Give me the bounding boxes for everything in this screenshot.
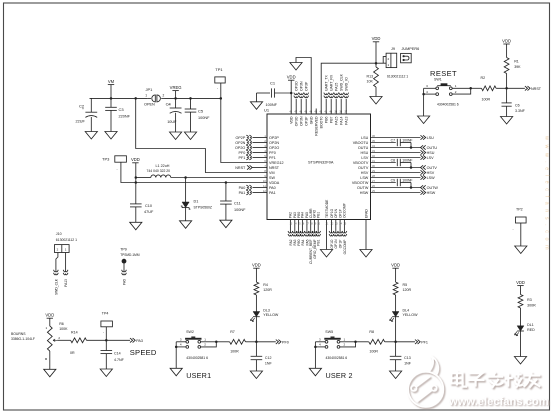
svg-text:C9: C9 [391, 179, 395, 183]
svg-text:C5: C5 [198, 109, 204, 114]
net stub CURRENT_REF below U1 [308, 231, 313, 233]
net label LSV [421, 155, 426, 159]
capacitor C1 100NF [257, 92, 271, 94]
wire SW2 left pins to ground [176, 341, 186, 343]
svg-text:100R: 100R [369, 350, 378, 354]
capacitor C11 100NF [225, 183, 227, 202]
resistor R7 100R [230, 339, 246, 344]
svg-text:VDD: VDD [45, 313, 54, 318]
svg-text:VDD: VDD [290, 116, 294, 124]
svg-text:SW5: SW5 [325, 330, 333, 334]
svg-text:PA2: PA2 [289, 239, 293, 245]
svg-text:PB7: PB7 [330, 116, 334, 123]
ground EPAD [360, 250, 372, 258]
svg-text:HSV: HSV [361, 171, 369, 175]
svg-text:R8: R8 [369, 330, 374, 334]
wire U1 VBOOTV [371, 162, 396, 164]
svg-text:100NF: 100NF [402, 139, 412, 143]
svg-text:LSU: LSU [361, 136, 369, 140]
junction SW2 left [175, 346, 178, 349]
U1 RESERVED pin stub [315, 109, 317, 115]
svg-text:C2: C2 [79, 104, 85, 109]
wire VREG rail [165, 97, 221, 99]
wire U1 HSU [371, 152, 421, 154]
net stub UART_RX above U1 [330, 99, 332, 114]
U1 left pin 3 OP2O [253, 147, 268, 149]
U1 left pin 11 PA0 [253, 187, 268, 189]
svg-text:C12: C12 [265, 356, 272, 360]
svg-text:OUTV: OUTV [427, 166, 438, 170]
net label PA3 [130, 338, 135, 342]
ground SW2 [170, 368, 182, 376]
svg-text:4304002581 6: 4304002581 6 [186, 356, 208, 360]
svg-text:PA5: PA5 [122, 279, 126, 285]
svg-text:RED: RED [527, 328, 535, 332]
svg-text:1: 1 [145, 93, 147, 97]
svg-text:OUTU: OUTU [427, 146, 438, 150]
wire LED node to net label [396, 341, 415, 343]
svg-text:HSU: HSU [427, 151, 435, 155]
ground C2 [85, 132, 97, 140]
svg-text:U1: U1 [264, 108, 270, 113]
svg-text:6130021112 1: 6130021112 1 [387, 75, 408, 79]
resistor R13 10K [374, 67, 379, 87]
capacitor C4 10UF [175, 98, 177, 108]
ground C11 [220, 220, 232, 228]
capacitor C12 1NF [255, 342, 257, 357]
svg-text:C3: C3 [119, 107, 125, 112]
svg-text:-: - [217, 86, 218, 90]
resistor R1 39K [504, 58, 509, 74]
resistor R3 300R [518, 295, 523, 309]
svg-text:0R: 0R [70, 351, 75, 355]
svg-text:TESTMODE: TESTMODE [325, 199, 329, 218]
svg-text:OP2O: OP2O [235, 146, 245, 150]
wire U1 LSW [371, 177, 421, 179]
svg-text:C4: C4 [166, 101, 172, 106]
svg-text:OP3P: OP3P [305, 116, 309, 126]
svg-text:VREG: VREG [170, 85, 182, 90]
net label PF1 [415, 340, 420, 344]
wire J10 pin1 [65, 253, 67, 271]
svg-text:100NF: 100NF [402, 179, 412, 183]
capacitor C3 220NF [110, 98, 112, 107]
svg-text:BOOT0: BOOT0 [320, 116, 324, 128]
net stub PB0 below U1 [296, 231, 301, 233]
svg-text:EPAD: EPAD [364, 209, 368, 218]
svg-text:PB6: PB6 [325, 116, 329, 123]
wire SW5 left pins to ground [315, 341, 325, 343]
svg-text:-: - [513, 227, 514, 231]
svg-text:TPSMD-1MM: TPSMD-1MM [120, 253, 140, 257]
wire TP4 stub [105, 327, 107, 341]
svg-text:6130021112 1: 6130021112 1 [56, 238, 77, 242]
junction SW5 left [314, 346, 317, 349]
svg-text:OCCOMP: OCCOMP [343, 239, 347, 255]
wire SW5 to R8 [356, 341, 369, 343]
U1 left pin 5 PF1 [253, 157, 268, 159]
svg-text:VDD: VDD [287, 75, 296, 80]
svg-text:10K: 10K [367, 80, 374, 84]
ground SW1 [418, 116, 430, 124]
svg-text:OP3O: OP3O [295, 81, 299, 91]
svg-text:PA2: PA2 [289, 212, 293, 218]
junction SW5 right [354, 341, 357, 344]
svg-text:PB1: PB1 [317, 212, 321, 218]
net stub SWD_CLK [54, 270, 59, 272]
net label HSW [421, 190, 426, 194]
svg-text:OP2N: OP2N [269, 141, 279, 145]
svg-text:TP4: TP4 [102, 311, 109, 315]
svg-text:100NF: 100NF [234, 208, 246, 212]
svg-text:J10: J10 [56, 232, 62, 236]
svg-text:SWD_CLK: SWD_CLK [340, 73, 344, 91]
svg-text:HSW: HSW [427, 191, 436, 195]
junction LED node DL3 [255, 341, 258, 344]
net stub OP1O below U1 [329, 231, 334, 233]
net stub PA5 below U1 [305, 231, 310, 233]
ground C13 [390, 371, 402, 379]
wire SW2 to R7 [216, 341, 229, 343]
wire U1 LSU [371, 137, 421, 139]
net label OUTU [421, 145, 426, 149]
net stub GPIO_BEMF below U1 [312, 231, 317, 233]
svg-text:VBOOTV: VBOOTV [353, 161, 369, 165]
wire TP2 to ground [520, 223, 522, 246]
wire C7 to OUT node [410, 143, 412, 148]
svg-text:OP3O: OP3O [295, 116, 299, 126]
svg-text:C6: C6 [515, 104, 520, 108]
svg-text:HSU: HSU [361, 151, 369, 155]
U1 bottom pin 23 OP1N [335, 220, 337, 233]
svg-text:PA15: PA15 [335, 116, 339, 124]
U1 left pin 4 PF0 [253, 152, 268, 154]
capacitor C2 22UF [90, 98, 92, 112]
net stub OCCOMP below U1 [342, 231, 347, 233]
svg-text:VDD: VDD [252, 263, 261, 268]
svg-text:NRST: NRST [269, 166, 280, 170]
net label OUTV [421, 165, 426, 169]
net stub OP2N [246, 140, 248, 145]
net stub SWD_IO above U1 [345, 99, 347, 114]
diode D1 STPS0560Z [185, 178, 187, 203]
junction VREG at TP1 drop [220, 97, 223, 100]
svg-text:C10: C10 [145, 204, 152, 208]
svg-text:10UF: 10UF [167, 120, 177, 124]
svg-text:OP2N: OP2N [235, 141, 245, 145]
wire U1 HSV [371, 172, 421, 174]
svg-text:PA15: PA15 [335, 83, 339, 91]
svg-text:R3: R3 [527, 298, 532, 302]
svg-text:VDD: VDD [502, 38, 511, 43]
svg-text:SW1: SW1 [434, 77, 442, 81]
svg-text:C14: C14 [114, 351, 121, 355]
ground C4 [170, 132, 182, 140]
U1 left pin 1 OP2P [253, 137, 268, 139]
U1 bottom pin 18 CURRENT_REF [310, 220, 312, 233]
ground TP2 [515, 246, 527, 254]
U1 bottom pin 14 PA3 [294, 220, 296, 233]
U1 left pin 2 OP2N [253, 142, 268, 144]
net label LSW [421, 175, 426, 179]
svg-text:-: - [117, 167, 118, 171]
svg-text:C8: C8 [391, 159, 395, 163]
svg-text:VM: VM [269, 171, 275, 175]
U1 bottom pin 20 PB1 [317, 220, 319, 233]
svg-text:VREG12: VREG12 [269, 161, 284, 165]
svg-text:HSV: HSV [427, 171, 435, 175]
svg-text:PF1: PF1 [421, 340, 428, 344]
svg-text:VDD: VDD [391, 263, 400, 268]
svg-text:100K: 100K [59, 327, 68, 331]
svg-text:USER1: USER1 [186, 371, 211, 380]
svg-text:OUTW: OUTW [357, 186, 369, 190]
net stub UART_TX above U1 [325, 99, 327, 114]
svg-text:LSW: LSW [360, 176, 369, 180]
junction C11 on VDDA rail [225, 181, 228, 184]
ground DL1 [514, 357, 526, 365]
wire SW2 right pins [201, 341, 217, 343]
wire C9 to OUT node [410, 183, 412, 188]
svg-text:C7: C7 [391, 139, 395, 143]
svg-text:OP2P: OP2P [235, 136, 245, 140]
svg-text:100R: 100R [230, 350, 239, 354]
svg-text:LSV: LSV [427, 156, 435, 160]
wire U1 HSW [371, 192, 421, 194]
junction SW2 right [215, 341, 218, 344]
resistor R8 100R [369, 339, 385, 344]
svg-text:TP3: TP3 [102, 157, 110, 162]
jumper JP1 OPEN [148, 97, 151, 99]
ground C14 [100, 369, 112, 377]
svg-text:R5: R5 [403, 283, 408, 287]
svg-text:YELLOW: YELLOW [263, 313, 279, 317]
svg-text:YELLOW: YELLOW [403, 313, 419, 317]
U1 left pin 7 NRST [253, 167, 268, 169]
net stub PA13 [63, 270, 68, 272]
net stub PF0 [246, 150, 248, 155]
svg-text:UART_TX: UART_TX [325, 74, 329, 91]
svg-text:DL3: DL3 [263, 308, 270, 312]
wire U1 OUTV [371, 167, 421, 169]
junction TP4 node [105, 339, 108, 342]
svg-text:VDD: VDD [516, 280, 525, 285]
svg-text:SPEED: SPEED [130, 348, 157, 357]
svg-text:SW: SW [269, 176, 275, 180]
net stub PF1 [246, 155, 248, 160]
svg-text:PF0: PF0 [269, 151, 276, 155]
net stub OP3O above U1 [295, 99, 297, 114]
junction OUTU bootstrap [410, 146, 413, 149]
net stub OP2P [246, 135, 248, 140]
svg-text:SWD_CLK: SWD_CLK [54, 278, 58, 295]
svg-text:JP1: JP1 [146, 87, 154, 92]
ground TESTMODE [320, 250, 332, 258]
resistor R2 100R [482, 86, 497, 91]
U1 bottom pin 17 PA5 [306, 220, 308, 233]
svg-text:BOURNS: BOURNS [11, 332, 26, 336]
wire U1 LSV [371, 157, 421, 159]
wire U1 VBOOTU [371, 142, 396, 144]
ground GND pin [290, 63, 302, 71]
net stub PA1 [246, 190, 248, 195]
svg-text:PF1: PF1 [269, 156, 276, 160]
ground C6 [501, 117, 513, 125]
junction VDD rail2 [135, 181, 138, 184]
svg-text:L1 22uH: L1 22uH [156, 164, 170, 168]
wire J10 pin2 [56, 253, 58, 271]
svg-text:PA0: PA0 [269, 186, 276, 190]
svg-text:VBOOTW: VBOOTW [352, 181, 369, 185]
svg-text:TP9: TP9 [120, 248, 127, 252]
junction LED node DL4 [394, 341, 397, 344]
wire R7 to LED node [246, 341, 257, 343]
svg-text:PF0: PF0 [282, 340, 289, 344]
svg-text:R6: R6 [59, 322, 64, 326]
svg-text:300R: 300R [527, 304, 536, 308]
wire VM to IC VM pin [136, 98, 267, 172]
wire TP3 to VDD node [121, 162, 136, 182]
svg-text:PA14: PA14 [340, 116, 344, 124]
wire R2 to NRST node [496, 87, 525, 89]
capacitor C6 3.3NF [506, 88, 508, 103]
LED DL1 RED [517, 326, 524, 331]
junction BOOT0 rail [375, 62, 378, 64]
LED DL3 YELLOW [253, 312, 260, 317]
op-amp/driver MCU U1 STSPIN32F0A body [267, 114, 371, 220]
junction D1 on SW rail [184, 176, 187, 179]
svg-text:4304002581 6: 4304002581 6 [326, 356, 348, 360]
resistor R4 120R [254, 282, 259, 295]
potentiometer R6 100K [47, 326, 52, 351]
U1 EPAD pin [365, 220, 367, 250]
svg-text:GND: GND [310, 116, 314, 124]
svg-text:OPEN: OPEN [144, 103, 155, 107]
svg-text:OUTU: OUTU [358, 146, 369, 150]
svg-text:PA4: PA4 [301, 212, 305, 218]
svg-text:OP3N: OP3N [300, 81, 304, 91]
svg-text:HSW: HSW [360, 191, 369, 195]
svg-text:PA13: PA13 [345, 116, 349, 124]
capacitor C8 100NF [396, 159, 398, 166]
svg-text:4304002581 6: 4304002581 6 [437, 102, 459, 106]
junction VDD rail1 [135, 176, 138, 179]
svg-text:4.7NF: 4.7NF [114, 358, 125, 362]
svg-text:100R: 100R [482, 97, 491, 101]
svg-text:SWD_IO: SWD_IO [345, 77, 349, 91]
net stub OP1P below U1 [338, 231, 343, 233]
svg-text:PA4: PA4 [301, 239, 305, 245]
jumper shunt icon J9 [401, 53, 412, 62]
net stub OP1N below U1 [333, 231, 338, 233]
svg-text:-: - [103, 330, 104, 334]
junction VREG at C4 [174, 97, 177, 100]
svg-text:STSPIN32F0A: STSPIN32F0A [308, 160, 334, 165]
capacitor C10 47UF [130, 203, 142, 205]
svg-text:OP2O: OP2O [269, 146, 279, 150]
svg-text:R13: R13 [367, 74, 374, 78]
LED DL4 YELLOW [392, 312, 399, 317]
svg-text:TP1: TP1 [215, 67, 223, 72]
net label HSU [421, 150, 426, 154]
wire GND pin route [296, 58, 311, 115]
wire C8 to OUT node [410, 163, 412, 168]
U1 left pin 12 PA1 [253, 192, 268, 194]
net stub PA4 below U1 [300, 231, 305, 233]
net stub PB1 below U1 [316, 231, 321, 233]
svg-text:DL4: DL4 [403, 308, 410, 312]
net stub OP3N above U1 [300, 99, 302, 114]
svg-text:PA0: PA0 [239, 186, 246, 190]
ground SW5 [309, 368, 321, 376]
svg-text:R2: R2 [481, 76, 486, 80]
wire SW1 right pins [452, 87, 471, 89]
svg-text:PF0: PF0 [239, 151, 246, 155]
net label NRST at reset [525, 86, 530, 90]
capacitor C13 1NF [395, 342, 397, 357]
svg-text:OP3N: OP3N [300, 116, 304, 126]
wire SW1 to R2 [471, 87, 482, 89]
svg-text:OCCOMP: OCCOMP [343, 202, 347, 218]
svg-text:39K: 39K [514, 65, 521, 69]
svg-text:47UF: 47UF [144, 210, 154, 214]
svg-text:VM: VM [108, 79, 115, 84]
svg-text:2: 2 [163, 93, 165, 97]
net label HSV [421, 170, 426, 174]
U1 bottom pin 19 GPIO_BEMF [313, 220, 315, 233]
wire LED node to net label [256, 341, 275, 343]
svg-text:www.elecfans.com: www.elecfans.com [448, 396, 549, 408]
capacitor C5 100NF [190, 98, 192, 109]
svg-text:STPS0560Z: STPS0560Z [194, 205, 212, 209]
svg-text:UART_RX: UART_RX [330, 74, 334, 91]
junction SW1 left [422, 93, 425, 96]
svg-text:C13: C13 [404, 356, 411, 360]
U1 bottom pin 21 TESTMODE [326, 220, 328, 250]
junction SW1 right [469, 87, 472, 90]
svg-text:NRST: NRST [235, 166, 246, 170]
svg-text:TP2: TP2 [516, 208, 523, 212]
wire U1 VBOOTW [371, 182, 396, 184]
wire VDDA rail [136, 182, 267, 184]
capacitor C9 100NF [396, 179, 398, 186]
svg-text:R7: R7 [230, 330, 235, 334]
wire U1 OUTU [371, 147, 421, 149]
wire R8 to LED node [385, 341, 396, 343]
svg-text:NRST: NRST [531, 87, 542, 91]
wire TP1 to VREG12 pin [221, 83, 267, 163]
svg-text:PA1: PA1 [269, 191, 276, 195]
svg-text:LSU: LSU [427, 136, 435, 140]
svg-text:120R: 120R [403, 288, 412, 292]
svg-text:LSV: LSV [361, 156, 369, 160]
U1 bottom pin 16 PA4 [301, 220, 303, 233]
svg-text:R4: R4 [263, 283, 268, 287]
ground R6 [44, 369, 56, 377]
resistor R5 120R [393, 282, 398, 295]
svg-text:J9: J9 [391, 47, 395, 51]
wire U1 OUTW [371, 187, 421, 189]
wire R14 to PA3 [87, 339, 131, 341]
inductor L1 22uH [136, 177, 151, 179]
svg-text:PA13: PA13 [64, 279, 68, 287]
svg-text:3.3NF: 3.3NF [515, 109, 526, 113]
svg-text:SW2: SW2 [186, 330, 194, 334]
svg-text:RESERVED: RESERVED [315, 116, 319, 136]
U1 bottom pin 13 PA2 [289, 220, 291, 233]
svg-text:VBOOTU: VBOOTU [353, 141, 369, 145]
svg-text:100NF: 100NF [198, 116, 210, 120]
